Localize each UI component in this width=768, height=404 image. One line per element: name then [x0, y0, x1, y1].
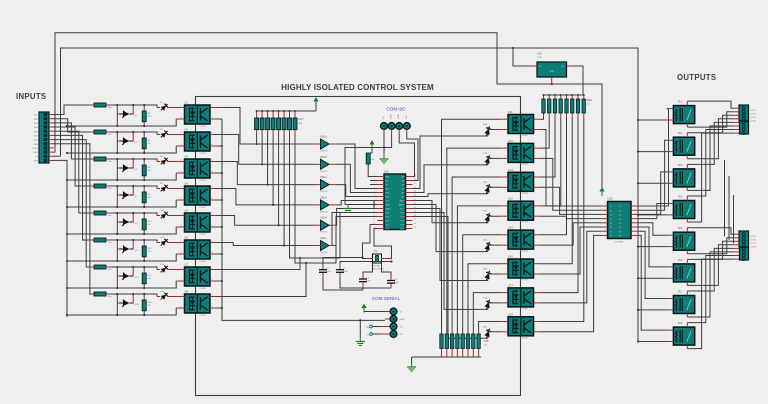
wire caps top rails	[323, 258, 363, 265]
pad SERIAL GND	[390, 316, 397, 323]
wire row 3 return rail	[67, 173, 176, 180]
svg-text:U17: U17	[508, 283, 513, 287]
svg-text:CM-2: CM-2	[33, 152, 39, 154]
svg-text:I3: I3	[610, 215, 612, 217]
svg-text:10k: 10k	[371, 159, 374, 161]
wire opto emitters to U19	[540, 130, 601, 207]
wire MCU TX stub	[370, 184, 377, 186]
svg-text:26: 26	[414, 183, 416, 185]
svg-text:4: 4	[212, 106, 213, 108]
svg-text:O6: O6	[619, 227, 621, 229]
svg-text:16: 16	[414, 223, 416, 225]
ground serial	[385, 318, 390, 320]
svg-text:OUT7: OUT7	[751, 243, 757, 245]
svg-text:PC817: PC817	[522, 280, 529, 282]
svg-text:U4: U4	[185, 182, 189, 186]
optocoupler U12	[508, 143, 534, 162]
svg-text:COM SERIAL: COM SERIAL	[372, 296, 401, 301]
svg-text:U1: U1	[185, 101, 189, 105]
svg-text:RL7: RL7	[678, 291, 683, 294]
svg-text:HIGHLY ISOLATED CONTROL SYSTEM: HIGHLY ISOLATED CONTROL SYSTEM	[281, 83, 434, 92]
svg-text:OUTPUTS: OUTPUTS	[677, 73, 716, 82]
wire U20 output to R23	[574, 66, 584, 95]
svg-text:2: 2	[181, 279, 182, 281]
zener diode D9	[117, 221, 120, 223]
svg-text:I2: I2	[610, 210, 612, 212]
wire row 2 top	[111, 132, 157, 135]
svg-text:PC817: PC817	[200, 315, 207, 317]
resistor network R23	[543, 95, 545, 99]
pad SERIAL 5V	[390, 308, 397, 315]
wire VS1 top rail	[55, 33, 602, 188]
svg-text:U13: U13	[508, 168, 513, 172]
svg-text:PD4: PD4	[386, 197, 390, 199]
svg-text:OUT6: OUT6	[751, 240, 757, 242]
connector J1 inputs	[39, 112, 49, 163]
svg-text:R17: R17	[299, 117, 305, 121]
resistor network R17	[256, 111, 258, 118]
capacitor C1	[339, 265, 341, 270]
svg-text:XT2: XT2	[386, 229, 389, 231]
power arrow VCC3	[371, 144, 373, 150]
svg-text:6: 6	[374, 195, 375, 197]
svg-text:R25: R25	[484, 340, 489, 343]
svg-text:2: 2	[181, 198, 182, 200]
svg-text:10: 10	[373, 211, 375, 213]
svg-text:U26:E: U26:E	[320, 217, 327, 220]
diode D2	[157, 107, 160, 109]
diode D18	[484, 299, 493, 311]
svg-text:SDA: SDA	[397, 114, 400, 119]
diode D8	[157, 188, 160, 190]
svg-text:U26:C: U26:C	[320, 176, 327, 179]
resistor R4	[143, 134, 145, 138]
svg-text:2: 2	[181, 225, 182, 227]
wire row 4 return rail	[67, 200, 176, 207]
svg-text:RL5: RL5	[678, 227, 683, 230]
svg-text:OUT5: OUT5	[751, 236, 757, 238]
svg-text:OUT2: OUT2	[751, 114, 757, 116]
optocoupler U6	[185, 240, 211, 259]
svg-text:RL3: RL3	[678, 164, 683, 167]
svg-text:5: 5	[374, 191, 375, 193]
svg-text:PC817: PC817	[200, 153, 207, 155]
svg-text:74HC04: 74HC04	[320, 252, 328, 254]
svg-text:PD5: PD5	[386, 213, 390, 215]
svg-text:U6: U6	[185, 236, 189, 240]
svg-text:O2: O2	[619, 210, 621, 212]
pad SERIAL TX	[390, 323, 397, 330]
svg-text:4: 4	[212, 133, 213, 135]
power arrow U19	[601, 191, 603, 197]
svg-text:O1: O1	[619, 206, 621, 208]
wire U19 outputs to relays	[639, 109, 669, 206]
wire row 7 return rail	[67, 281, 176, 288]
optocoupler U8	[185, 294, 211, 313]
svg-text:GND: GND	[386, 205, 391, 207]
svg-text:A0: A0	[402, 196, 404, 199]
wire R23 top rail	[544, 94, 584, 96]
resistor R7	[89, 185, 94, 187]
svg-text:2: 2	[181, 252, 182, 254]
zener diode D3	[117, 140, 120, 142]
ground near buffers	[347, 205, 349, 209]
driver U19	[608, 202, 632, 239]
svg-text:3: 3	[212, 252, 213, 254]
resistor R15	[89, 293, 94, 295]
svg-text:PD6: PD6	[386, 217, 390, 219]
wire R25 tops staircase B	[442, 119, 501, 334]
svg-text:OUT3: OUT3	[751, 117, 757, 119]
svg-text:P11: P11	[401, 221, 404, 223]
svg-text:VSS: VSS	[34, 161, 39, 163]
zener diode D1	[117, 113, 120, 115]
diode D6	[157, 161, 160, 163]
optocoupler U11	[508, 115, 534, 134]
svg-text:O3: O3	[619, 215, 621, 217]
crystal X1	[373, 254, 382, 263]
svg-text:U2: U2	[185, 128, 189, 132]
wire opto collectors to buffers	[217, 108, 315, 145]
ground I2C	[383, 155, 385, 159]
diode D10	[157, 215, 160, 217]
svg-text:1: 1	[181, 241, 182, 243]
svg-text:I8: I8	[610, 236, 612, 238]
svg-text:33pF: 33pF	[343, 271, 348, 273]
svg-text:1: 1	[181, 160, 182, 162]
diode D19	[484, 270, 493, 282]
optocoupler U18	[508, 317, 534, 336]
svg-text:PC817: PC817	[522, 193, 529, 195]
resistor R3	[89, 131, 94, 133]
svg-text:PD3: PD3	[386, 193, 390, 195]
svg-text:3: 3	[212, 144, 213, 146]
svg-text:4: 4	[212, 160, 213, 162]
resistor R8	[143, 188, 145, 192]
svg-text:GND: GND	[400, 319, 405, 321]
svg-text:PC817: PC817	[522, 164, 529, 166]
wire MCU ground bracket	[374, 200, 377, 202]
svg-text:GND: GND	[400, 201, 405, 203]
wire MCU outputs staircase A	[413, 136, 489, 189]
optocoupler U13	[508, 172, 534, 191]
svg-text:15: 15	[414, 227, 416, 229]
capacitor C3	[362, 274, 364, 279]
zener diode D11	[117, 248, 120, 250]
wire input fan	[54, 105, 90, 115]
svg-text:3: 3	[212, 306, 213, 308]
svg-text:2: 2	[181, 144, 182, 146]
svg-text:PC817: PC817	[200, 261, 207, 263]
resistor R10	[143, 215, 145, 219]
diode D16	[157, 296, 160, 298]
svg-text:PC817: PC817	[200, 180, 207, 182]
regulator U20	[537, 62, 567, 77]
svg-text:3: 3	[212, 171, 213, 173]
svg-text:ULN2803: ULN2803	[615, 242, 624, 244]
wire buffer outputs to MCU	[336, 144, 377, 189]
svg-text:A1: A1	[402, 192, 404, 195]
svg-text:O8: O8	[619, 236, 621, 238]
svg-text:4: 4	[212, 214, 213, 216]
wire row 7 top	[111, 267, 157, 270]
svg-text:U19: U19	[608, 197, 613, 201]
wire row 4 top	[111, 186, 157, 189]
wire row 6 top	[111, 240, 157, 243]
wire opto emitter bus	[222, 119, 385, 320]
svg-text:1: 1	[181, 133, 182, 135]
svg-text:U8: U8	[185, 290, 189, 294]
svg-text:PC817: PC817	[522, 337, 529, 339]
optocoupler U2	[185, 132, 211, 151]
svg-text:U16: U16	[508, 255, 513, 259]
connector J2 outputs	[739, 105, 749, 121]
svg-text:PC817: PC817	[522, 308, 529, 310]
svg-text:11: 11	[373, 215, 375, 217]
svg-text:I5: I5	[610, 223, 612, 225]
resistor R12	[143, 242, 145, 246]
svg-text:GND1: GND1	[386, 209, 391, 211]
svg-text:PB0: PB0	[386, 177, 390, 179]
svg-text:4: 4	[212, 241, 213, 243]
wire row 1 top	[111, 105, 157, 108]
diode D22	[484, 183, 493, 195]
wire U20 input	[513, 48, 530, 66]
wire R24 to MCU	[368, 152, 372, 154]
svg-text:U7: U7	[185, 263, 189, 267]
diode D24	[484, 125, 493, 137]
svg-text:PC817: PC817	[200, 207, 207, 209]
wire common bus J2 to J3	[724, 160, 726, 236]
wire row 6 return rail	[67, 254, 176, 261]
zener diode D5	[117, 167, 120, 169]
svg-text:1: 1	[181, 268, 182, 270]
wire crystal to MCU	[363, 225, 378, 259]
svg-text:74HC04: 74HC04	[320, 211, 328, 213]
svg-text:U26:D: U26:D	[320, 196, 327, 199]
optocoupler U4	[185, 186, 211, 205]
connector J3 outputs	[739, 231, 749, 247]
wire relays to output terminals	[687, 101, 733, 108]
svg-text:74HC04: 74HC04	[320, 151, 328, 153]
svg-text:U26:F: U26:F	[320, 237, 327, 240]
diode D4	[157, 134, 160, 136]
svg-text:COM I2C: COM I2C	[386, 107, 406, 112]
optocoupler U16	[508, 259, 534, 278]
wire VS2 top rail	[61, 48, 639, 342]
optocoupler U1	[185, 105, 211, 124]
svg-text:VO: VO	[561, 66, 564, 68]
svg-text:OUT8: OUT8	[751, 247, 757, 249]
svg-text:2: 2	[181, 171, 182, 173]
diode D12	[157, 242, 160, 244]
zener diode D13	[117, 275, 120, 277]
wire row 2 return rail	[67, 146, 176, 153]
svg-text:P13: P13	[401, 213, 404, 215]
optocoupler U7	[185, 267, 211, 286]
wire row 5 top	[111, 213, 157, 216]
wire row 5 return rail	[67, 227, 176, 234]
optocoupler U14	[508, 201, 534, 220]
svg-text:22pF: 22pF	[366, 280, 371, 282]
resistor R11	[89, 239, 94, 241]
svg-text:O5: O5	[619, 223, 621, 225]
svg-text:PC817: PC817	[522, 135, 529, 137]
svg-text:74HC04: 74HC04	[320, 232, 328, 234]
svg-text:3: 3	[212, 225, 213, 227]
svg-text:I6: I6	[610, 227, 612, 229]
svg-text:RX: RX	[400, 334, 404, 336]
svg-text:U3: U3	[185, 155, 189, 159]
svg-text:I1: I1	[610, 206, 612, 208]
wire row 1 return rail	[67, 119, 176, 126]
svg-text:R23: R23	[587, 98, 593, 102]
wire serial tx rx terminals	[380, 326, 390, 328]
svg-text:U26:A: U26:A	[320, 136, 327, 139]
svg-text:1: 1	[181, 106, 182, 108]
svg-text:U10: U10	[384, 170, 389, 174]
resistor R16	[143, 296, 145, 300]
svg-text:RL2: RL2	[678, 132, 683, 135]
svg-text:U18: U18	[508, 312, 513, 316]
resistor R2	[143, 107, 145, 111]
svg-text:PC817: PC817	[200, 288, 207, 290]
svg-text:PC817: PC817	[200, 234, 207, 236]
diode D23	[484, 154, 493, 166]
capacitor C2	[322, 265, 324, 270]
svg-text:OUT4: OUT4	[751, 121, 757, 123]
resistor R6	[143, 161, 145, 165]
svg-text:1: 1	[181, 187, 182, 189]
svg-text:33pF: 33pF	[326, 271, 331, 273]
resistor R5	[89, 158, 94, 160]
resistor network R25	[440, 334, 443, 349]
optocoupler U17	[508, 288, 534, 307]
svg-text:P12: P12	[401, 217, 404, 219]
svg-text:PB2: PB2	[400, 229, 404, 231]
wire R25 bottom rail to ground	[412, 356, 481, 358]
isolation boundary box	[196, 97, 521, 396]
svg-text:PC817: PC817	[200, 126, 207, 128]
svg-text:17: 17	[414, 219, 416, 221]
ground R25	[411, 363, 413, 367]
svg-text:3: 3	[212, 198, 213, 200]
svg-text:CM-1: CM-1	[33, 148, 39, 150]
wire common bus	[54, 160, 68, 317]
capacitor C4	[390, 276, 392, 281]
svg-text:22pF: 22pF	[394, 282, 399, 284]
svg-text:VCC: VCC	[386, 201, 391, 203]
svg-text:AREF: AREF	[399, 204, 405, 207]
wire R17 bottoms	[256, 134, 258, 144]
svg-text:2: 2	[181, 306, 182, 308]
svg-text:U5: U5	[185, 209, 189, 213]
svg-text:O4: O4	[619, 219, 621, 221]
wire row 3 top	[111, 159, 157, 162]
wire MCU RX stub	[370, 180, 377, 182]
svg-text:INPUTS: INPUTS	[16, 92, 46, 101]
wire caps bottoms	[323, 277, 363, 290]
power arrow serial	[363, 307, 365, 313]
svg-text:U15: U15	[508, 226, 513, 230]
svg-text:U14: U14	[508, 197, 513, 201]
wire R23 bottoms to opto collectors	[540, 117, 544, 119]
svg-text:A3: A3	[402, 184, 404, 187]
svg-text:RL4: RL4	[678, 196, 683, 199]
svg-text:4: 4	[374, 187, 375, 189]
wire relay coil commons	[638, 119, 667, 121]
svg-text:3: 3	[212, 279, 213, 281]
diode D17	[484, 328, 493, 340]
svg-text:7805: 7805	[537, 57, 543, 59]
diode D20	[484, 241, 493, 253]
resistor R13	[89, 266, 94, 268]
svg-text:I7: I7	[610, 231, 612, 233]
svg-text:U12: U12	[508, 139, 513, 143]
optocoupler U5	[185, 213, 211, 232]
svg-text:P10: P10	[401, 225, 404, 227]
svg-text:A5: A5	[402, 176, 404, 179]
optocoupler U15	[508, 230, 534, 249]
resistor R24	[366, 153, 370, 164]
svg-text:A2: A2	[402, 188, 404, 191]
svg-text:12: 12	[373, 219, 375, 221]
svg-text:RL1: RL1	[678, 101, 683, 104]
optocoupler U3	[185, 159, 211, 178]
svg-text:PC817: PC817	[522, 251, 529, 253]
svg-text:74HC04: 74HC04	[320, 191, 328, 193]
svg-text:VCC: VCC	[400, 209, 405, 211]
svg-text:U26:B: U26:B	[320, 156, 327, 159]
svg-text:74HC04: 74HC04	[320, 171, 328, 173]
svg-text:2: 2	[181, 117, 182, 119]
svg-text:A4: A4	[402, 180, 404, 183]
resistor R14	[143, 269, 145, 273]
wire row 8 return rail	[67, 308, 176, 315]
pad SERIAL RX	[390, 331, 397, 338]
resistor R9	[89, 212, 94, 214]
svg-text:U20: U20	[537, 52, 542, 56]
power arrow VCC2	[315, 101, 317, 107]
svg-text:4: 4	[212, 187, 213, 189]
svg-text:OUT1: OUT1	[751, 110, 757, 112]
svg-text:XT1: XT1	[386, 225, 389, 227]
svg-text:4: 4	[212, 268, 213, 270]
resistor R1	[89, 104, 94, 106]
diode D21	[484, 212, 493, 224]
svg-text:PD7: PD7	[386, 221, 390, 223]
wire I2C pads down	[383, 130, 385, 134]
svg-text:GND: GND	[549, 71, 554, 73]
svg-text:I4: I4	[610, 219, 612, 221]
microcontroller U10	[384, 174, 406, 230]
wire R17 top rail	[257, 110, 316, 112]
wire row 8 top	[111, 294, 157, 297]
svg-text:O7: O7	[619, 231, 621, 233]
svg-text:RL6: RL6	[678, 259, 683, 262]
zener diode D7	[117, 194, 120, 196]
diode D14	[157, 269, 160, 271]
svg-text:PC817: PC817	[522, 222, 529, 224]
svg-text:PD2: PD2	[386, 189, 390, 191]
svg-text:1: 1	[181, 295, 182, 297]
svg-text:3: 3	[212, 117, 213, 119]
svg-text:1: 1	[181, 214, 182, 216]
zener diode D15	[117, 302, 120, 304]
svg-text:GND: GND	[391, 114, 393, 119]
svg-text:RL8: RL8	[678, 322, 683, 325]
svg-text:4: 4	[212, 295, 213, 297]
